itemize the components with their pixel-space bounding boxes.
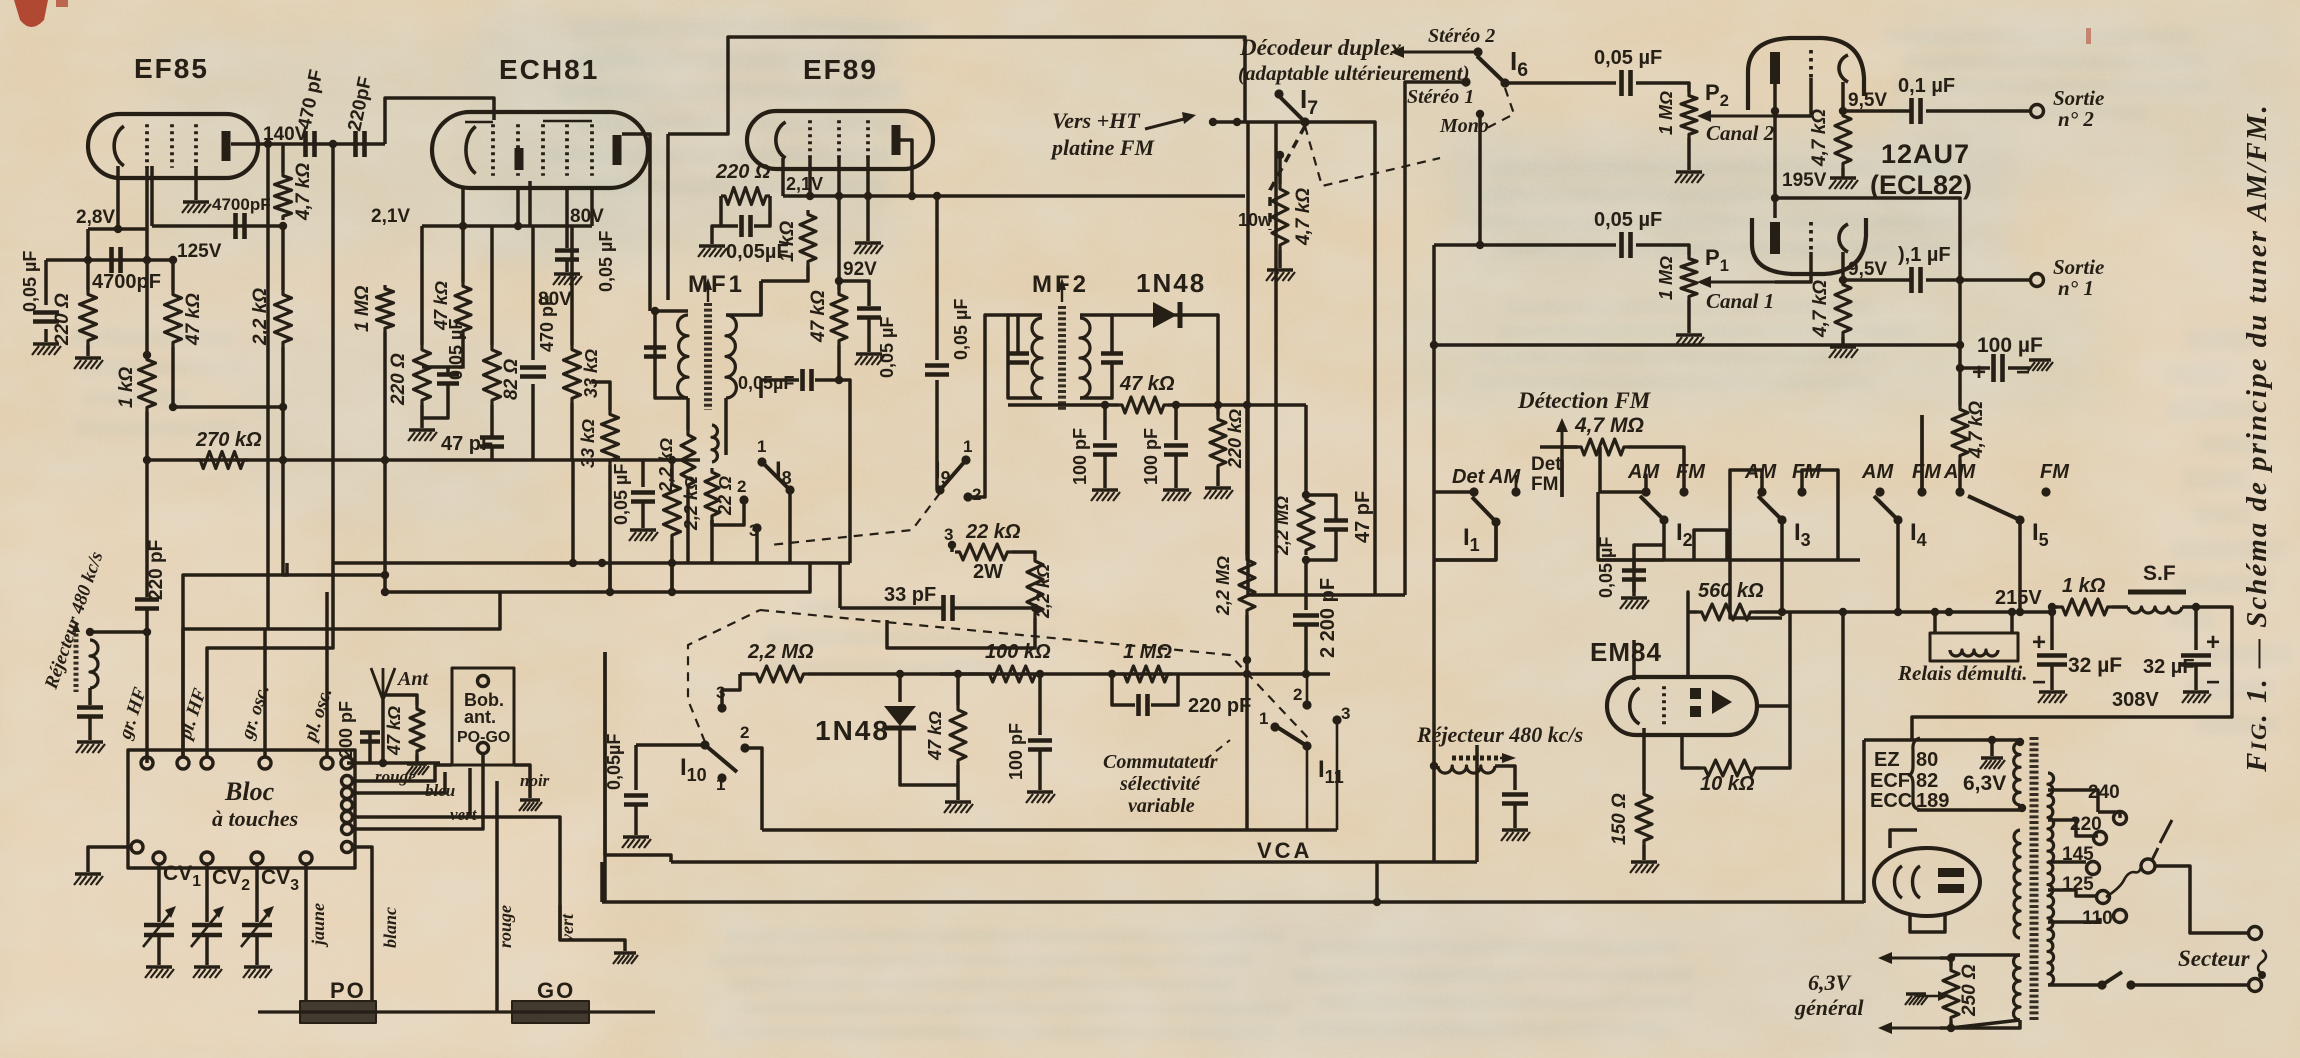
junction 1377-902 [1373,898,1381,906]
wire x671 riser [605,652,671,862]
wire mf2 out [1112,403,1118,407]
terminal 125 [2097,891,2110,904]
wire 82ohm down2 [490,448,494,460]
wire 1M to bus [383,332,387,460]
svg-text:125V: 125V [177,241,222,262]
wire CV3 gnd [255,936,259,965]
junction 1247-674 [1243,670,1251,678]
wire 0,05uF gnd [44,329,48,342]
wire 308v [1912,717,2100,740]
svg-text:FM: FM [1531,474,1558,495]
svg-text:ant.: ant. [464,707,496,727]
pin right2 [342,800,353,811]
junction 1949-612 [1945,608,1953,616]
ground 220k det [1205,486,1231,489]
wire ef89 anode pin [900,140,912,196]
wire I8 c3 down [755,531,759,563]
arrow CV3 [241,910,271,947]
wire 1247-830 [1245,674,1249,830]
ground I10 cap [623,835,649,838]
ground CV2 [194,965,220,968]
ground 10W [1267,268,1293,271]
svg-text:général: général [1794,995,1864,1020]
svg-text:80V: 80V [538,289,572,310]
wire cap osc bracket [422,367,448,373]
svg-text:220 pF: 220 pF [146,540,167,600]
dash I7 [1305,126,1440,186]
wire I1 bot [1434,522,1496,560]
wire 10k right [1760,612,1790,768]
wire 22ohm down [710,520,714,563]
wire 33k2 top [592,382,610,410]
block Bob ant [452,668,514,765]
wire 2,2k bot to bus [281,407,285,460]
ground 100pF a [1092,488,1118,491]
ground 32uF a [2039,690,2065,693]
svg-text:2: 2 [1293,685,1302,704]
terminal sortie1 [2031,274,2044,287]
wire MF2 sec loop [1080,315,1112,352]
junction 573-563 [569,559,577,567]
ground 47k sel [945,800,971,803]
wire 2200pF down [1304,626,1308,674]
junction 1218-405 [1214,401,1222,409]
capacitor 47pF [480,435,504,440]
wire I7 right [1305,122,1375,595]
switch I5 [1968,496,2020,520]
wire 63 bot b [1940,1020,2020,1028]
capacitor MF2 left [1007,351,1029,356]
ground 150ohm [1631,860,1657,863]
wire bank box1 [1598,492,1664,560]
wire CV1 col [157,864,161,922]
svg-text:FM: FM [1676,461,1706,483]
junction 32a [2048,603,2056,611]
svg-text:sélectivité: sélectivité [1119,773,1201,795]
wire 47k ant top [383,695,417,705]
capacitor 0,1uF s1 [1909,267,1914,293]
svg-text:150 Ω: 150 Ω [1609,793,1630,845]
wire ef89 g1 pin [808,158,812,196]
svg-text:22 Ω: 22 Ω [715,476,735,516]
wire 10W top [1278,155,1282,184]
wire em84 cap gnd [1632,581,1636,596]
junction I7 b [1233,118,1241,126]
junction sec top a [2016,738,2024,746]
wire 4,7k out bot [1958,460,1962,492]
wire 1k-sf [2112,605,2128,609]
wire x602 up [600,862,604,902]
wire 220k top [1216,405,1220,415]
junction 463-226 [459,222,467,230]
svg-text:ECF: ECF [1870,770,1910,792]
svg-text:33 pF: 33 pF [884,584,936,606]
svg-text:EM84: EM84 [1590,637,1662,667]
svg-text:308V: 308V [2112,689,2159,711]
wire 2,2k mf1 down [686,490,690,563]
wire MF1 sec down [724,398,728,425]
terminal 220 [2094,832,2107,845]
wire pin r down [353,753,483,829]
wire x610 join [608,590,612,594]
capacitor 100pF b [1164,443,1188,448]
svg-text:Réjecteur 480 kc/s: Réjecteur 480 kc/s [1416,722,1583,747]
svg-text:220 kΩ: 220 kΩ [1225,409,1245,469]
resistor 82ohm [484,345,501,405]
svg-text:0,05 µF: 0,05 µF [1594,209,1662,231]
svg-text:Det AM: Det AM [1452,466,1521,488]
wire ech81 g pin592 [590,188,594,226]
wire 2,2k-47k link [173,347,283,407]
resistor 2,2k det [1027,556,1043,618]
capacitor 4700pF [233,213,238,239]
wire I10 cap gnd [634,806,638,835]
junction ant row [379,759,387,767]
capacitor 0,05uF ch2 [1619,70,1624,96]
svg-text:6,3V: 6,3V [1963,772,2006,795]
capacitor 0,05uF I10 [624,793,648,798]
svg-text:Bloc: Bloc [224,777,275,806]
wire mains bottom2 [2131,983,2248,987]
junction 147-355 [143,351,151,359]
switch I10 [705,745,737,772]
svg-text:4,7 kΩ: 4,7 kΩ [1809,109,1830,167]
tube rectifier [1874,848,1980,916]
svg-text:EF85: EF85 [134,53,209,84]
wire 220pF up-over [385,98,494,144]
junction 672-563 [668,559,676,567]
wire ef89 cath left [719,196,723,226]
wire 47k ant gnd [415,755,419,762]
wire ef89 anode down [935,196,939,360]
resistor 1M [377,285,394,332]
junction 1960-345 [1956,341,1964,349]
arrow 250 slider [1916,995,1944,998]
wire I2 pivot down [1662,520,1666,560]
svg-text:2,2 kΩ: 2,2 kΩ [656,438,676,493]
wire I11 c3 down [1336,722,1339,830]
svg-text:220 pF: 220 pF [1188,695,1251,717]
inductor osc small [712,425,718,462]
wire relais left [1933,612,1937,633]
wire 92V cap gnd [867,319,871,352]
wire em84 top col [1633,548,1636,560]
ground 92V cap [856,352,882,355]
ground 47k ant [407,762,427,765]
svg-text:(ECL82): (ECL82) [1870,170,1972,200]
resistor 10k [1700,760,1760,776]
wire detfm col [1515,475,1518,492]
svg-text:+: + [1972,359,1986,386]
inductor rejecteur mid [1438,766,1495,773]
wire ef89 g2 pin [837,158,841,196]
resistor 2,2k [275,290,292,347]
tube 12AU7 lower half [1752,218,1866,274]
wire 2,2M b col [1304,405,1308,495]
wire bus 215V [1688,610,1697,614]
wire 195V col [1775,111,1960,280]
resistor 22k [955,544,1012,560]
wire x333 drop [331,144,335,563]
diode 1N48 top [1153,302,1177,328]
wire vert bob riser [468,768,472,817]
wire 92V cap col [839,281,869,306]
wire PO baseline [258,1010,655,1013]
capacitor 100uF [1991,354,1996,382]
svg-text:Secteur: Secteur [2178,946,2251,971]
svg-text:4,7 kΩ: 4,7 kΩ [1966,401,1987,459]
wire ech81 g pin567 [565,188,569,248]
inductor sec HT [2014,830,2020,938]
wire P1 bus [1775,280,1811,282]
inductor MF1 secondary [726,315,736,398]
ground 0,05uF input [33,342,59,345]
tube EM84 [1607,677,1757,735]
wire mono col [1478,114,1482,245]
wire mono low bus [1434,343,1960,347]
terminal 240 [2114,812,2127,825]
block Bloc a touches [128,750,355,868]
pin right1 [342,788,353,799]
junction 610-592 [606,588,614,596]
wire bus y862 vca [671,860,1477,864]
wire bloc gnd [88,847,131,872]
contact mono [1476,110,1484,118]
core transformer [2030,737,2039,1022]
switch secteur [2102,972,2122,985]
junction rejecteur [143,628,151,636]
resistor 47k det [1118,397,1168,413]
junction 1176-405 [1172,401,1180,409]
wire 2,1V node [422,224,592,228]
pin b3 [251,852,263,864]
wire bus y674 [940,672,1330,676]
wire 47k ef89 down [837,345,841,380]
wire 4,7k out top [1958,400,1962,405]
junction 1843-111 [1839,107,1847,115]
wire grosc riser [263,629,267,757]
wire det fm col [1560,460,1564,497]
capacitor 47pF det [1324,518,1348,523]
capacitor 0,05uF ef89 [739,215,744,237]
inductor PO winding [300,1001,376,1023]
junction 283-407 [279,403,287,411]
wire det am col [1434,558,1496,562]
wire em84 g col [1632,560,1636,592]
svg-text:220 Ω: 220 Ω [52,293,73,346]
svg-text:33 kΩ: 33 kΩ [581,349,601,398]
grid 12AU7 upper [1809,50,1813,78]
wire bank rect b [1730,560,1782,618]
svg-text:1 MΩ: 1 MΩ [1656,256,1676,300]
wire 150 gnd [1642,845,1646,860]
wire 33k2 down [608,465,612,592]
svg-text:1: 1 [757,437,766,456]
inductor MF2 primary [1032,318,1042,398]
arrow decodeur [1396,51,1474,54]
pin grosc [259,757,271,769]
wire det out [1168,403,1306,407]
capacitor 0,05uF ch1 [1619,232,1624,258]
wire x1477 riser [1475,745,1479,862]
wire 100pF b gnd [1174,456,1178,488]
svg-text:4,7 MΩ: 4,7 MΩ [1574,414,1644,437]
wire bus y674 left [740,672,752,676]
wire relais right [2010,612,2014,633]
wire 100uF branch [1960,366,1990,370]
resistor 1k sf [2058,599,2112,615]
wire supply loop left [1841,612,1845,902]
junction 173-407 [169,403,177,411]
junction 2058-607 [2048,608,2056,616]
wire bus y460 [147,458,610,462]
svg-text:n° 2: n° 2 [2058,107,2094,131]
wire 207 up [207,563,333,757]
svg-text:47 kΩ: 47 kΩ [925,711,945,761]
wire 1k ef89 down [761,266,808,281]
junction 958-674 [954,670,962,678]
resistor 270k [196,452,248,469]
capacitor 2200pF [1293,613,1319,618]
wire 100pF sel col [1038,674,1042,735]
tube ECH81 [432,112,648,188]
junction 1306-674 [1302,670,1310,678]
inductor SF [2128,607,2182,613]
wire 33k1 top [570,226,574,345]
svg-text:+: + [2206,629,2220,656]
svg-text:Stéréo 2: Stéréo 2 [1428,25,1495,47]
capacitor 0,05uF ech g2 [555,248,579,253]
pin b1 [153,852,165,864]
svg-text:jaune: jaune [308,903,328,948]
wire 32a gnd [2050,666,2054,690]
resistor 2,2k ech [664,480,681,540]
resistor 220k det [1210,415,1226,470]
wire MF2 prim loop top [1008,313,1042,317]
junction 1960-280 [1956,276,1964,284]
anode 12AU7 upper [1770,52,1780,84]
junction 900-674 [896,670,904,678]
svg-text:noir: noir [520,771,550,790]
wire x672 to bus [670,563,674,592]
wire tap 145 [2048,860,2086,864]
wire 0,05 col [641,460,645,487]
arrow CV1 [143,910,173,947]
wire ef89 anode down2 [935,380,939,490]
resistor 47k sel [950,705,966,765]
wire MF2 left col [1016,315,1020,352]
wire blanc col [353,847,372,1001]
brace EZ [1909,738,1920,810]
terminal secteur b [2249,979,2262,992]
wire 220k gnd [1216,470,1220,486]
wire ech81 anode out2 [666,134,670,300]
junction 839-281 [835,277,843,285]
svg-text:0,05 µF: 0,05 µF [611,464,631,525]
junction cathode [114,225,122,233]
ground ech g2 [554,272,580,275]
resistor 47k ech [455,282,471,335]
dash I6 [1487,88,1514,128]
junction 868-196 [864,192,872,200]
tube EF89 [747,111,933,169]
svg-text:0,05 µF: 0,05 µF [877,317,897,378]
pin b0 [131,841,143,853]
junction 1105-405 [1101,401,1109,409]
wire bank rect c [1836,520,1840,560]
capacitor 0,05uF ech2 [631,490,655,495]
variable capacitor CV3 [242,923,272,928]
wire ech g2 cap gnd [565,261,569,272]
core MF2 [1058,306,1066,410]
wire x1434 col [1432,560,1436,862]
wire x1248 drop [1246,122,1250,595]
junction 385-592 [381,588,389,596]
arrow MF2 tune [1061,282,1063,302]
wire grHF col2 [145,610,149,763]
wire 32a col [2050,607,2054,650]
svg-text:100 pF: 100 pF [1070,428,1090,485]
wire ech81 inner g link [465,121,493,124]
wire ant mast [381,700,385,763]
terminal 110 [2114,910,2127,923]
junction 147-260 [143,256,151,264]
wire rect tube wires2 [1910,913,1945,932]
wire I3 pivot down [1780,523,1784,612]
wire vert col [520,817,560,940]
wire I2 am left [1600,447,1646,492]
svg-text:2,1V: 2,1V [786,174,823,194]
junction relais r [2008,608,2016,616]
wire vert step [560,905,625,951]
resistor 1M ch2 [1681,92,1697,138]
ground rejecteur [77,740,103,743]
junction 385-575 [381,571,389,579]
capacitor 32uF b [2181,653,2211,658]
diode 1N48 low [884,706,916,726]
svg-text:Détection FM: Détection FM [1517,388,1652,413]
svg-text:4700pF: 4700pF [92,271,161,293]
inductor relais [1950,650,1998,656]
wire 2,2k det down [887,618,1035,648]
wire I2 am up [1644,475,1648,492]
svg-text:4,7 kΩ: 4,7 kΩ [1293,188,1314,246]
svg-text:2,2 MΩ: 2,2 MΩ [1213,556,1233,616]
wire 32b gnd [2194,666,2198,690]
capacitor 0,1uF s2 [1909,98,1914,124]
wire bus y196 [783,194,1245,198]
capacitor 33pF [941,595,946,621]
junction 385-460 [381,456,389,464]
dash I7 left [1270,126,1305,230]
svg-text:0,05 µF: 0,05 µF [20,251,40,312]
variable capacitor CV1 [144,923,174,928]
junction 2,2M b top [1302,491,1310,499]
arrow detection [1561,425,1564,460]
svg-text:GO: GO [537,978,575,1003]
svg-text:4700pF: 4700pF [212,195,271,214]
junction 912-196 [908,192,916,200]
svg-text:6,3V: 6,3V [1808,970,1853,995]
wire 12au7l cath [1841,252,1845,280]
ground ef89 cath [699,244,725,247]
capacitor 4700pF input [109,247,114,273]
switch I3 [1758,496,1782,520]
wire jaune col [304,864,308,1001]
svg-text:1: 1 [1259,709,1268,728]
wire bank rect a [1694,530,1727,560]
wire ht to bank [1920,415,1924,492]
